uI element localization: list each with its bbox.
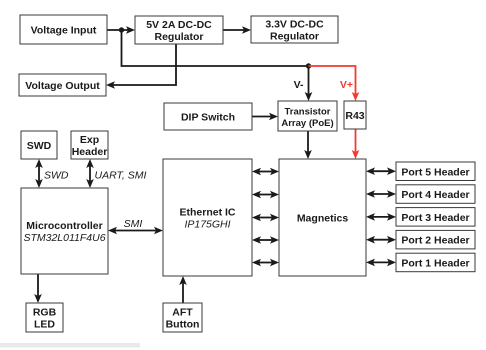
wire: Magnetics to Port 5 Header: [366, 167, 396, 175]
wire: SWD bus between SWD header and Microcontroller: [35, 159, 43, 188]
svg-text:Magnetics: Magnetics: [297, 213, 349, 225]
block: Port 4 Header: [396, 185, 475, 204]
microcontroller U1 STM32L011F4U6: [21, 188, 108, 274]
svg-text:3.3V DC-DC: 3.3V DC-DC: [265, 19, 324, 31]
svg-text:Ethernet IC: Ethernet IC: [179, 207, 235, 219]
svg-text:Voltage Input: Voltage Input: [31, 25, 97, 37]
svg-text:DIP Switch: DIP Switch: [181, 112, 235, 124]
svg-text:Port 4 Header: Port 4 Header: [401, 189, 469, 201]
svg-text:SWD: SWD: [44, 170, 69, 182]
svg-text:IP175GHI: IP175GHI: [184, 218, 230, 230]
svg-text:Regulator: Regulator: [270, 30, 319, 42]
wire: V+ red rail from split node down into R43: [309, 66, 360, 101]
junction node: V- / V+ split: [306, 63, 311, 68]
wire: AFT Button up into Ethernet IC: [179, 276, 187, 332]
wire: SMI bus between Microcontroller and Ethernet IC: [108, 227, 163, 235]
block: AFT Button: [163, 303, 202, 332]
block: Voltage Input: [20, 15, 107, 44]
wire: Microcontroller to RGB LED: [34, 274, 42, 303]
svg-text:Microcontroller: Microcontroller: [26, 220, 102, 232]
wire: Ethernet IC port 1 pair to Magnetics: [252, 259, 279, 267]
ethernet IC U2 IP175GHI: [163, 159, 252, 276]
svg-text:SWD: SWD: [27, 140, 52, 152]
svg-text:Transistor: Transistor: [285, 106, 331, 117]
svg-text:R43: R43: [345, 110, 364, 122]
svg-text:Array (PoE): Array (PoE): [281, 118, 333, 129]
wire: 5V regulator output to 3.3V regulator input: [223, 26, 251, 34]
wire: Magnetics to Port 1 Header: [366, 259, 396, 267]
block: 3.3V DC-DC Regulator: [251, 16, 338, 43]
svg-text:Exp: Exp: [80, 134, 99, 146]
svg-text:Button: Button: [166, 318, 200, 330]
wire: Voltage Input output to 5V regulator input: [107, 26, 135, 34]
block: Magnetics: [279, 159, 366, 276]
block: 5V 2A DC-DC Regulator: [135, 16, 223, 44]
wire: UART/SMI bus between Exp Header and Microcontroller: [86, 159, 94, 188]
svg-text:RGB: RGB: [33, 307, 57, 319]
svg-text:STM32L011F4U6: STM32L011F4U6: [23, 232, 105, 244]
block: RGB LED: [26, 303, 63, 332]
wire: Magnetics to Port 2 Header: [366, 236, 396, 244]
svg-text:V-: V-: [294, 79, 304, 91]
wire: V- drop into Transistor Array (PoE): [305, 66, 313, 101]
svg-text:AFT: AFT: [172, 307, 193, 319]
svg-text:Header: Header: [72, 146, 108, 158]
junction node: input rail tap: [119, 27, 124, 32]
svg-text:5V 2A DC-DC: 5V 2A DC-DC: [146, 19, 212, 31]
wire: Magnetics to Port 3 Header: [366, 213, 396, 221]
wire: DIP Switch to Transistor Array: [252, 113, 278, 121]
svg-text:UART, SMI: UART, SMI: [95, 170, 147, 182]
svg-text:V+: V+: [340, 79, 353, 91]
wire: input rail down and across to V- / V+ split node: [122, 30, 309, 66]
block: DIP Switch: [164, 103, 252, 130]
wire: Ethernet IC port 2 pair to Magnetics: [252, 236, 279, 244]
svg-text:Voltage Output: Voltage Output: [25, 80, 100, 92]
wire: R43 down into Magnetics (red V+): [352, 129, 360, 159]
wire: Ethernet IC port 5 pair to Magnetics: [252, 168, 279, 176]
block: Port 2 Header: [396, 230, 475, 249]
block: Port 1 Header: [396, 253, 475, 272]
svg-text:Port 3 Header: Port 3 Header: [401, 212, 469, 224]
block: Transistor Array (PoE): [278, 101, 337, 131]
svg-text:LED: LED: [34, 318, 55, 330]
svg-text:Regulator: Regulator: [154, 31, 203, 43]
block: Port 5 Header: [396, 162, 475, 181]
svg-text:Port 5 Header: Port 5 Header: [401, 166, 469, 178]
wire: Magnetics to Port 4 Header: [366, 190, 396, 198]
svg-text:Port 2 Header: Port 2 Header: [401, 235, 469, 247]
wire: Transistor Array down into Magnetics: [304, 131, 312, 159]
block: Port 3 Header: [396, 208, 475, 227]
resistor R43: [344, 101, 366, 129]
svg-text:Port 1 Header: Port 1 Header: [401, 257, 469, 269]
block: Voltage Output: [19, 74, 106, 96]
wire: Ethernet IC port 3 pair to Magnetics: [252, 214, 279, 222]
wire: 5V regulator output down and left into Voltage Output: [106, 44, 176, 89]
block: Exp Header: [71, 131, 108, 159]
block: SWD header: [21, 131, 57, 159]
svg-text:SMI: SMI: [124, 218, 143, 230]
wire: Ethernet IC port 4 pair to Magnetics: [252, 191, 279, 199]
